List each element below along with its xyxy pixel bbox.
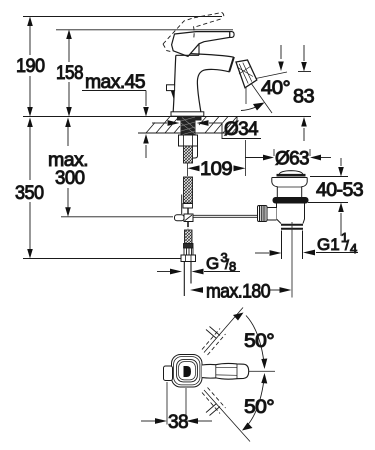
- svg-text:G1: G1: [317, 235, 340, 254]
- pop-up rod clamp: [175, 214, 194, 227]
- faucet handle lever: [172, 32, 235, 57]
- svg-text:83: 83: [293, 86, 314, 108]
- deck line: [23, 116, 311, 118]
- top view cartridge mark: [184, 366, 192, 377]
- dimension diameter 63: [245, 149, 331, 160]
- pop-up waste gasket: [273, 197, 309, 204]
- break marks lower: [206, 404, 220, 416]
- reference line top (190 level): [23, 16, 222, 18]
- bottom reference line (350 level): [23, 258, 182, 260]
- G3/8 connection nut: [181, 255, 196, 262]
- waste tailpipe: [282, 222, 303, 259]
- label G 3/8: [206, 250, 236, 274]
- dimension 190: [27, 17, 33, 117]
- top view pop-up knob: [164, 366, 173, 381]
- supply hose upper: [182, 146, 193, 214]
- svg-text:38: 38: [168, 411, 188, 433]
- dimension G 3/8 arrows: [157, 269, 240, 275]
- mounting nut: [179, 135, 198, 158]
- dimension 109: [188, 163, 246, 176]
- dashed lever lower: [202, 388, 226, 414]
- deck cross-section hatched: [138, 117, 237, 134]
- pop-up waste dome cap: [277, 171, 306, 176]
- dimension 40-53: [308, 158, 348, 236]
- connection tube: [184, 262, 191, 297]
- svg-text:Ø63: Ø63: [275, 148, 309, 170]
- svg-text:50°: 50°: [244, 396, 274, 418]
- top view lever: [202, 363, 249, 379]
- dimension G1 1/4 arrow: [255, 250, 358, 256]
- svg-text:G: G: [206, 254, 219, 273]
- dimension angle 40: [241, 45, 287, 113]
- rod level line (max.300 level): [61, 216, 173, 218]
- svg-text:max.45: max.45: [85, 71, 146, 93]
- dimension max.180: [190, 259, 292, 298]
- pop-up waste body: [277, 204, 305, 229]
- dimension 38: [141, 382, 212, 425]
- svg-text:300: 300: [55, 167, 85, 189]
- angle leg upper 50: [204, 308, 244, 353]
- top view centerline: [249, 370, 275, 372]
- dimension max.300: [65, 118, 71, 217]
- dimension 83: [298, 45, 311, 141]
- faucet handle dashed raised position: [163, 13, 224, 53]
- svg-text:40°: 40°: [261, 77, 290, 99]
- waste knurled nut: [258, 206, 268, 222]
- svg-text:40-53: 40-53: [316, 179, 363, 201]
- svg-text:109: 109: [200, 158, 232, 180]
- svg-text:Ø34: Ø34: [224, 118, 259, 140]
- label G1 1/4: [317, 230, 357, 256]
- faucet base: [171, 112, 204, 121]
- faucet body: [173, 55, 199, 111]
- faucet spout: [190, 54, 234, 112]
- svg-text:158: 158: [56, 62, 83, 84]
- reference line 158 level: [56, 29, 233, 31]
- top view body: [172, 355, 203, 388]
- dimension 158: [66, 30, 72, 117]
- svg-text:/: /: [345, 237, 349, 253]
- break marks upper: [206, 327, 220, 339]
- arc 50 upper: [246, 316, 267, 370]
- waste side inlet boss: [266, 208, 277, 221]
- svg-text:50°: 50°: [244, 330, 274, 352]
- svg-text:4: 4: [350, 241, 357, 256]
- dashed lever upper: [202, 329, 226, 356]
- arc 50 lower: [246, 373, 267, 427]
- aerator: [236, 60, 257, 88]
- pop-up rod knob: [167, 85, 175, 100]
- angle leg lower 50: [204, 390, 253, 442]
- svg-text:350: 350: [15, 182, 44, 204]
- supply hose lower: [184, 228, 194, 256]
- dimension 350: [27, 118, 33, 259]
- svg-text:max.180: max.180: [206, 281, 271, 303]
- threaded shank below deck: [181, 117, 196, 136]
- svg-text:190: 190: [16, 55, 45, 77]
- horizontal pop-up rod to waste: [193, 215, 258, 217]
- dimension arrows diameter 34: [152, 120, 261, 176]
- pop-up waste flange: [272, 178, 307, 198]
